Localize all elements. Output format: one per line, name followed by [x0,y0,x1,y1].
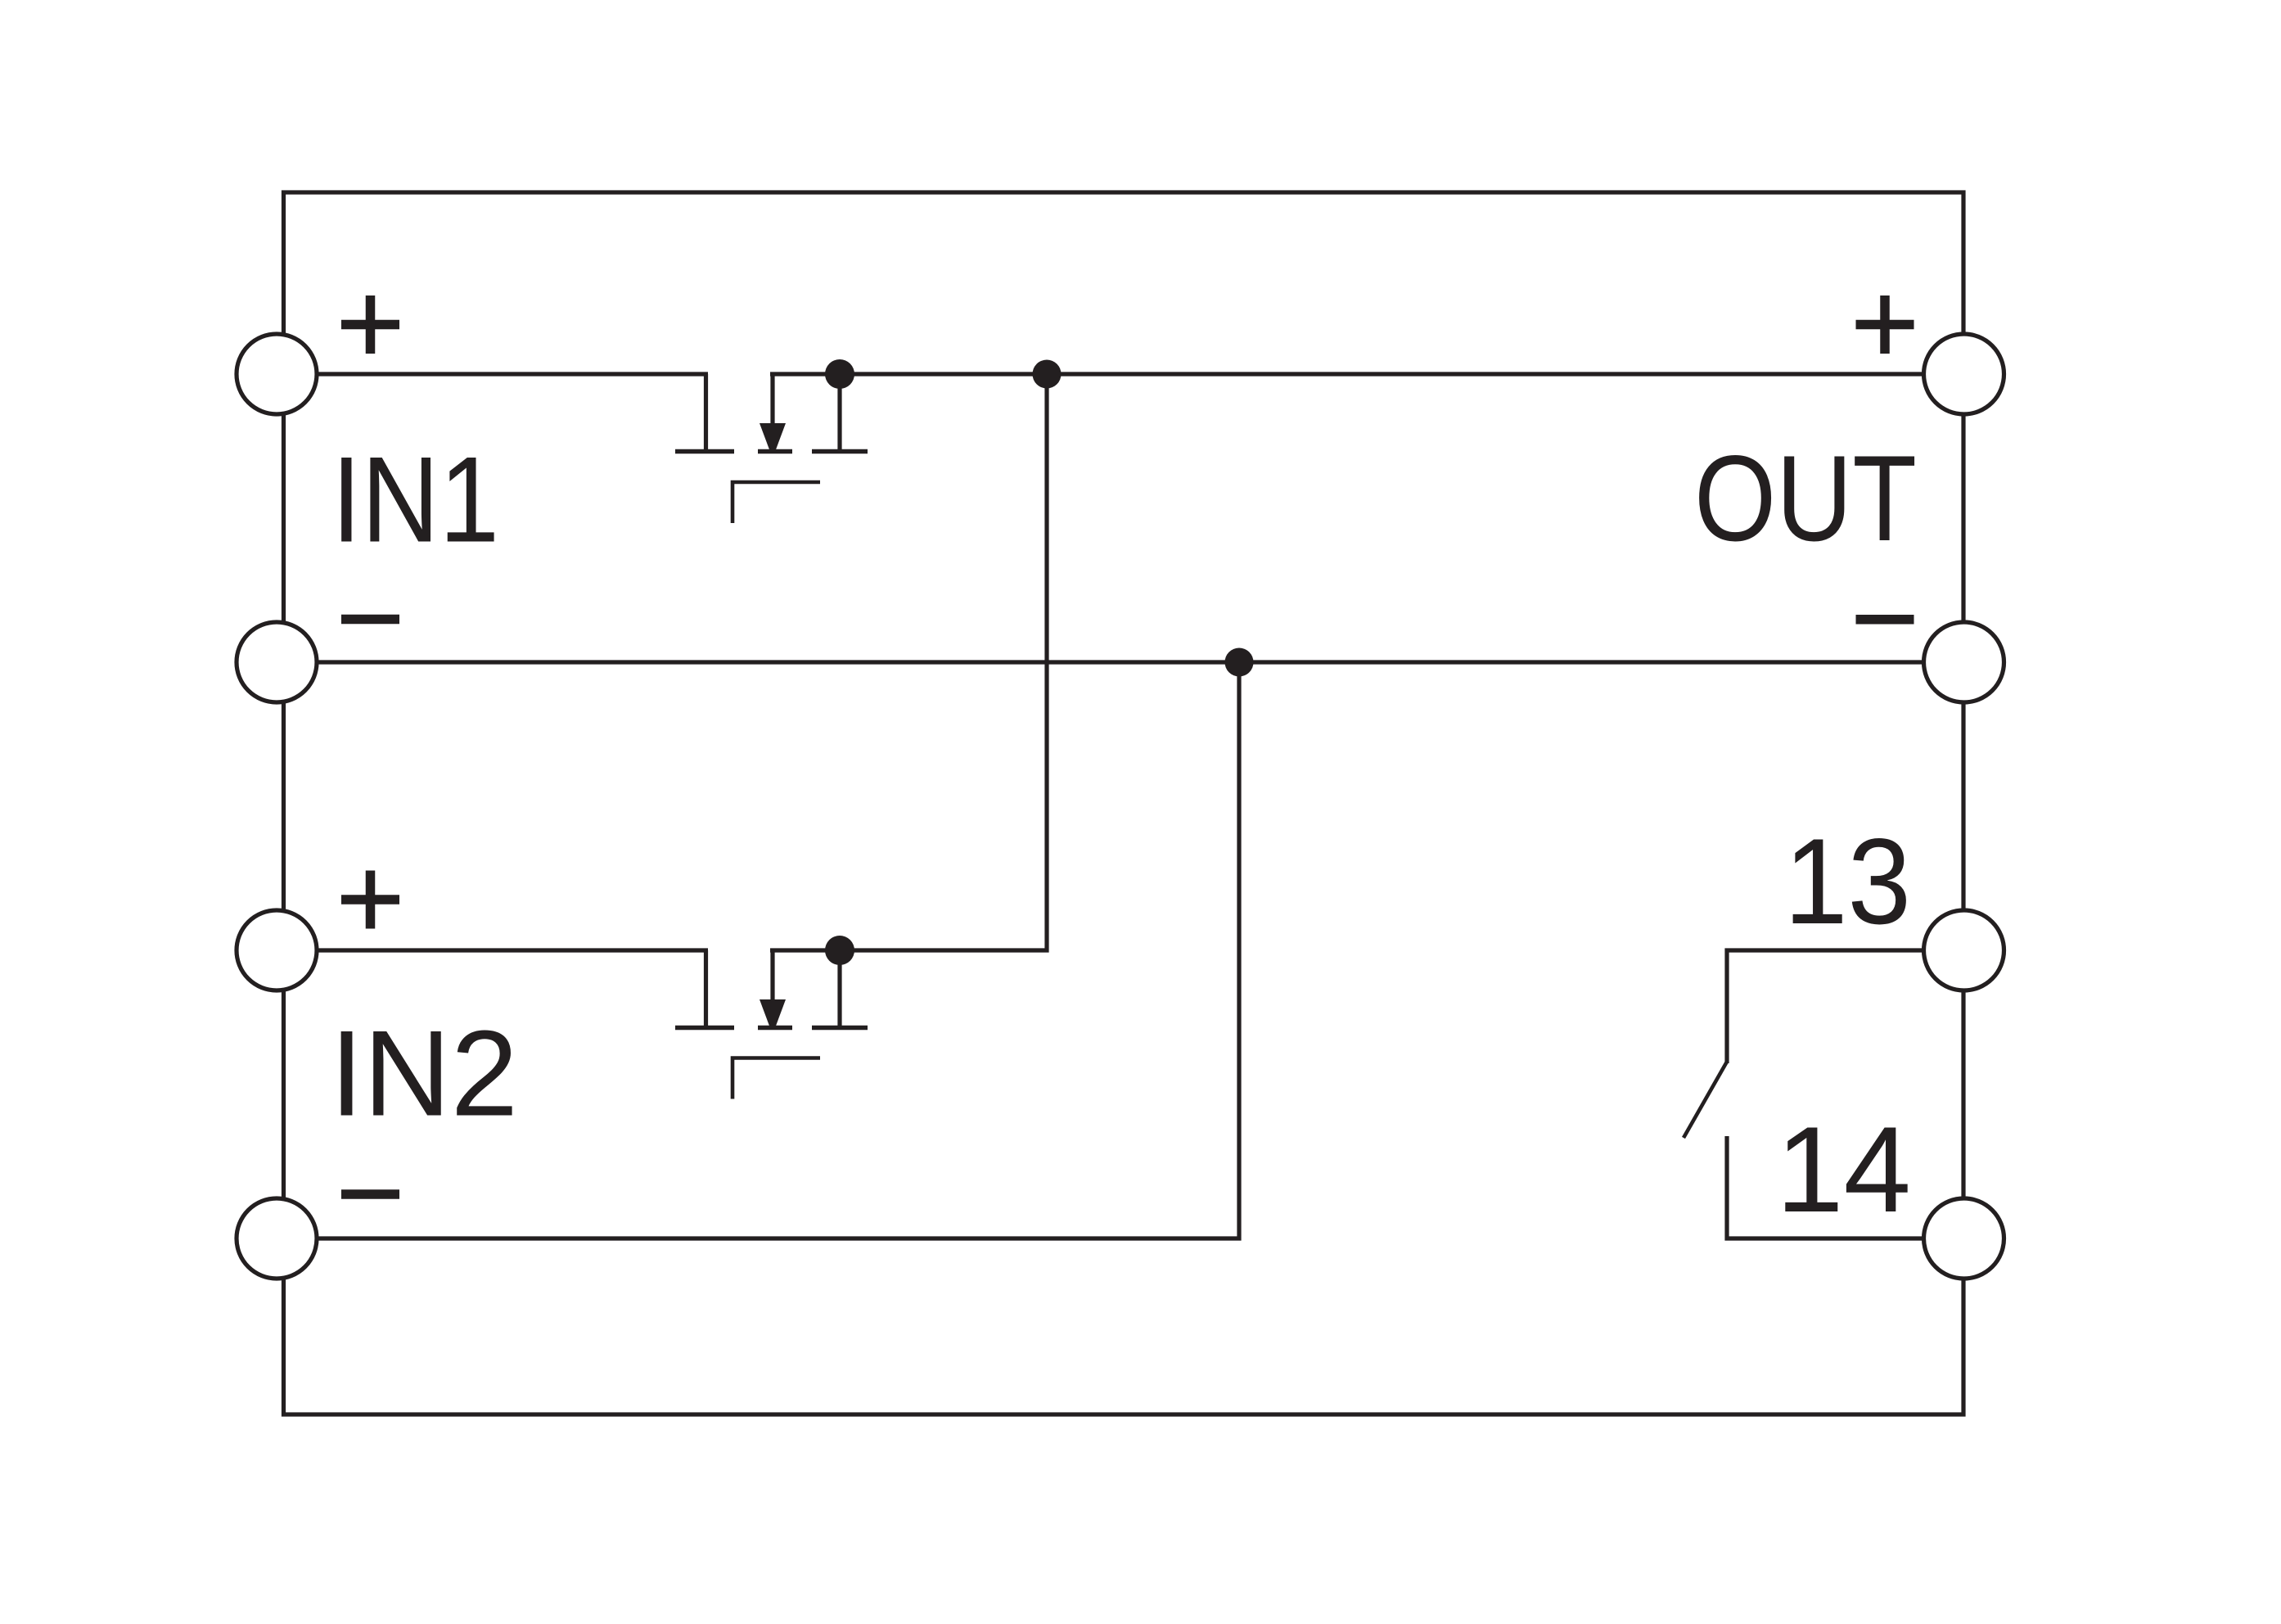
svg-text:14: 14 [1776,1101,1911,1238]
svg-text:13: 13 [1784,813,1911,950]
label IN2 minus [341,1189,399,1199]
terminal OUT+ [1924,334,2004,414]
Q2 gate [733,1058,820,1099]
transistor Q2 [675,950,868,1099]
terminal IN2+ [237,910,317,990]
junction node C [1225,648,1254,677]
transistor Q1 [675,374,868,523]
wire IN2- to node C riser [277,662,1239,1238]
terminal 14 [1924,1198,2004,1279]
svg-text:IN2: IN2 [330,1005,518,1142]
switch blade S1 [1684,1062,1727,1138]
terminal IN1- [237,622,317,702]
Q1 body bar [758,449,792,454]
Q1 source bar [812,449,868,454]
wire Q1 body lead start to OUT+ [770,372,1963,376]
wire contact 14 branch [1727,1136,1963,1238]
outer enclosure border [284,192,1964,1414]
label OUT plus [1856,295,1914,354]
junction node Q2 source [825,936,854,965]
Q1 body lead [770,374,774,425]
junction node B [1033,360,1062,389]
label OUT minus [1856,615,1914,625]
wire Q2 output to node B riser [770,374,1047,950]
Q2 body lead [770,950,774,1001]
Q1 source lead [837,374,841,449]
Q2 body arrow [760,999,786,1027]
terminal 13 [1924,910,2004,990]
Q2 drain bar [675,1026,734,1031]
junction node Q1 source [825,359,854,389]
label IN2 plus [341,871,399,929]
wire IN2+ to Q2 drain [277,948,708,952]
Q1 drain lead [704,374,708,449]
Q1 drain bar [675,449,734,454]
Q2 source bar [812,1026,868,1031]
wire IN1+ to Q1 drain [277,372,708,376]
terminal OUT- [1924,622,2004,702]
Q2 drain lead [704,950,708,1026]
terminal IN1+ [237,334,317,414]
terminal IN2- [237,1198,317,1279]
Q2 body bar [758,1026,792,1031]
label IN1 minus [341,615,399,625]
Q1 body arrow [760,423,786,451]
svg-text:OUT: OUT [1694,430,1917,566]
wire contact 13 branch [1727,950,1963,1063]
svg-text:IN1: IN1 [331,431,499,568]
Q1 gate [733,482,820,523]
wire IN1- to OUT- [277,660,1963,664]
label IN1 plus [341,295,399,354]
Q2 source lead [837,950,841,1026]
